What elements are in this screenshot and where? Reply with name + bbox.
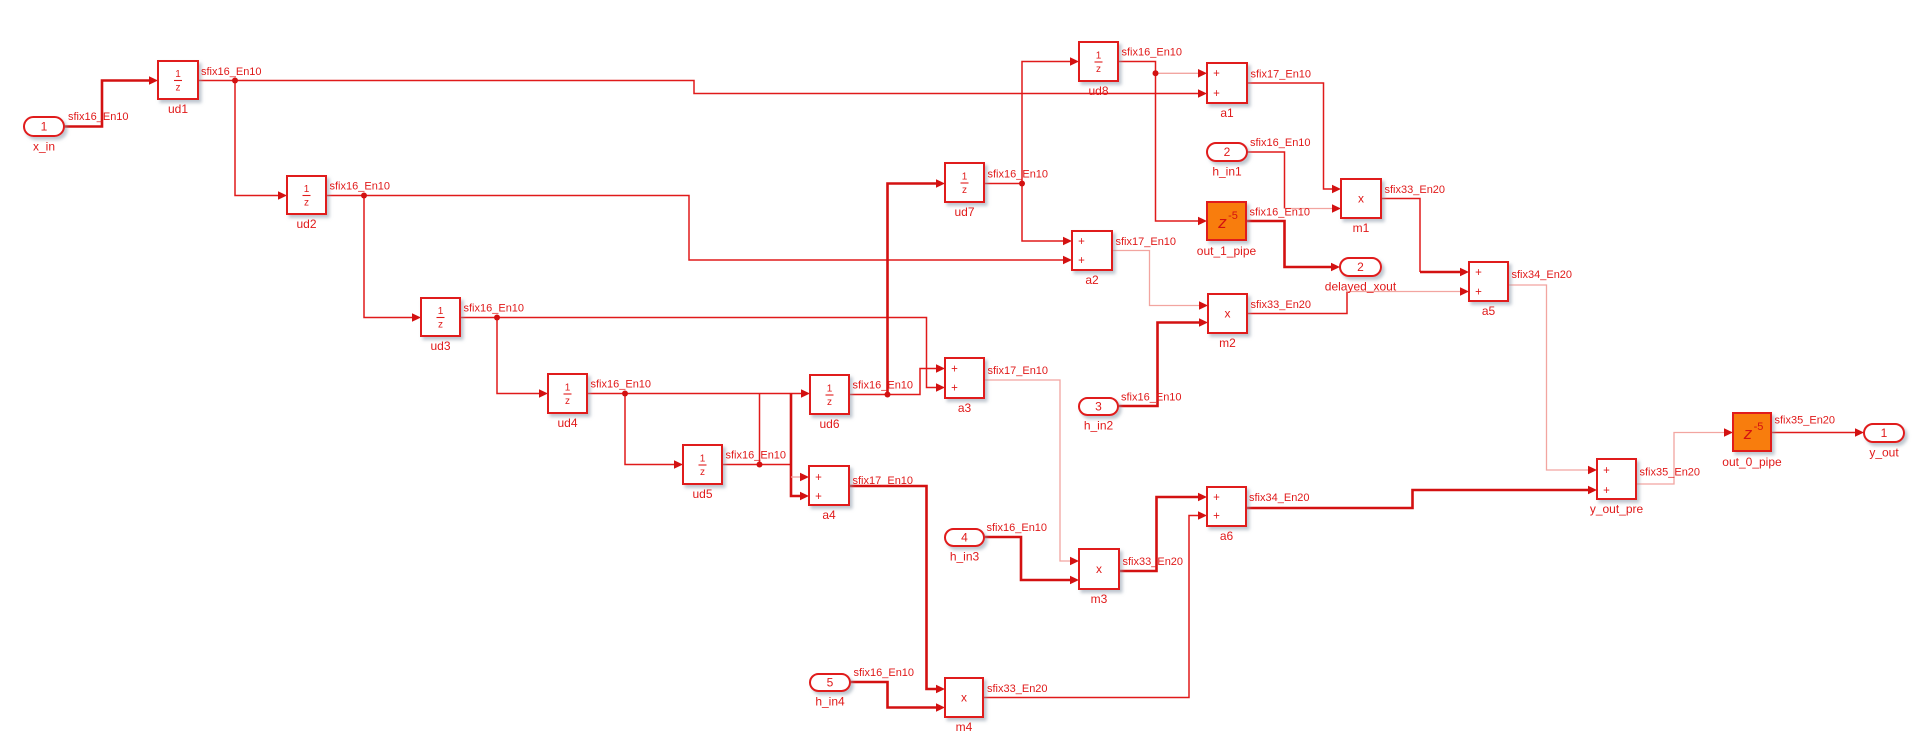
svg-text:sfix16_En10: sfix16_En10	[330, 181, 391, 193]
unit delay ud6	[810, 375, 849, 431]
unit delay ud7	[945, 163, 984, 219]
multiplier m1	[1341, 179, 1381, 235]
svg-text:+: +	[1475, 267, 1482, 279]
svg-text:x: x	[961, 691, 967, 705]
svg-text:sfix17_En10: sfix17_En10	[1116, 236, 1177, 248]
wire ud7 junction to ud8	[1022, 57, 1079, 183]
wire m1 to a5 in1	[1420, 268, 1469, 277]
wire junction	[1019, 181, 1025, 187]
svg-text:+: +	[1213, 68, 1220, 80]
adder a1	[1207, 63, 1247, 120]
svg-text:+: +	[1603, 485, 1610, 497]
wire ud6 branch to ud7	[888, 179, 946, 394]
svg-text:sfix16_En10: sfix16_En10	[1122, 47, 1183, 59]
svg-text:1: 1	[700, 454, 706, 465]
svg-text:+: +	[1213, 88, 1220, 100]
adder a2	[1072, 231, 1112, 287]
wire a5 to y_out_pre in1	[1508, 285, 1597, 474]
svg-text:+: +	[1475, 287, 1482, 299]
wire y_out_pre to out_0_pipe	[1636, 428, 1733, 484]
svg-text:+: +	[1078, 236, 1085, 248]
svg-text:sfix33_En20: sfix33_En20	[987, 683, 1048, 695]
multiplier m2	[1208, 294, 1247, 350]
svg-text:-5: -5	[1228, 210, 1238, 222]
svg-text:+: +	[815, 472, 822, 484]
svg-text:a2: a2	[1085, 273, 1099, 287]
svg-text:m3: m3	[1091, 592, 1108, 606]
svg-text:ud3: ud3	[430, 339, 450, 353]
wire a2 to m2 in1	[1112, 251, 1208, 310]
wire junction	[494, 315, 500, 321]
input port h_in1	[1207, 143, 1247, 179]
svg-text:z: z	[176, 83, 181, 94]
wire ud4 branch to ud5	[625, 394, 683, 469]
svg-text:5: 5	[827, 676, 834, 690]
svg-text:ud2: ud2	[296, 217, 316, 231]
svg-text:x: x	[1358, 192, 1364, 206]
svg-text:x_in: x_in	[33, 140, 55, 154]
wire m2 to a5 in2	[1347, 287, 1469, 296]
svg-text:ud4: ud4	[557, 416, 577, 430]
svg-text:sfix16_En10: sfix16_En10	[1250, 137, 1311, 149]
svg-text:sfix17_En10: sfix17_En10	[988, 365, 1049, 377]
wire h_in3 to m3 in2	[983, 537, 1079, 584]
svg-text:sfix34_En20: sfix34_En20	[1512, 269, 1573, 281]
wire h_in2 to m2 in2	[1118, 318, 1208, 406]
adder a5	[1469, 262, 1508, 318]
svg-text:+: +	[1603, 465, 1610, 477]
wire m4 to a6 in2	[983, 511, 1207, 697]
svg-text:sfix16_En10: sfix16_En10	[1250, 207, 1311, 219]
svg-text:a4: a4	[822, 508, 836, 522]
wire junction	[1153, 70, 1159, 76]
wire spur to a1 in1	[1156, 69, 1208, 78]
wire out_0_pipe to y_out	[1771, 428, 1864, 437]
wire ud1 to a1 in2	[198, 81, 1207, 98]
wire ud2 to a2 in2	[326, 196, 1072, 265]
input port h_in4	[810, 674, 850, 709]
wire m1 out	[1381, 199, 1420, 273]
svg-text:y_out_pre: y_out_pre	[1590, 502, 1644, 516]
svg-text:z: z	[962, 185, 967, 196]
unit delay ud1	[158, 61, 198, 116]
svg-text:a3: a3	[958, 401, 972, 415]
unit delay ud2	[287, 176, 326, 231]
svg-text:ud6: ud6	[819, 417, 839, 431]
svg-text:z: z	[1743, 424, 1753, 443]
wire a6 to y_out_pre in2	[1245, 486, 1597, 508]
wire ud7 junction to a2 in1	[1022, 184, 1072, 246]
output port delayed_xout	[1325, 258, 1397, 294]
wire junction	[361, 193, 367, 199]
svg-text:+: +	[1213, 492, 1220, 504]
multiplier m3	[1079, 549, 1119, 606]
svg-text:sfix16_En10: sfix16_En10	[1121, 392, 1182, 404]
wire a4 to m4 in1	[849, 486, 945, 693]
adder a3	[945, 358, 984, 415]
svg-text:sfix16_En10: sfix16_En10	[853, 380, 914, 392]
svg-text:+: +	[951, 383, 958, 395]
svg-text:1: 1	[1881, 426, 1888, 440]
wire ud4 to ud6	[587, 389, 810, 398]
svg-text:sfix33_En20: sfix33_En20	[1251, 299, 1312, 311]
unit delay ud8	[1079, 42, 1118, 98]
svg-text:sfix16_En10: sfix16_En10	[201, 66, 262, 78]
wire ud1 branch to ud2	[235, 81, 287, 200]
wire ud2 branch to ud3	[364, 196, 421, 322]
svg-text:h_in3: h_in3	[950, 550, 980, 564]
svg-text:a5: a5	[1482, 304, 1496, 318]
svg-text:1: 1	[827, 384, 833, 395]
unit delay ud4	[548, 374, 587, 430]
wire h_in4 to m4 in2	[850, 682, 945, 712]
svg-text:sfix35_En20: sfix35_En20	[1775, 415, 1836, 427]
wire out_1_pipe to delayed_xout	[1246, 221, 1340, 271]
svg-text:y_out: y_out	[1869, 446, 1899, 460]
svg-text:h_in1: h_in1	[1212, 165, 1242, 179]
svg-text:x: x	[1225, 307, 1231, 321]
wire h_in1 to m1 in2	[1285, 204, 1342, 213]
svg-text:1: 1	[438, 306, 444, 317]
wire junction	[885, 392, 891, 398]
wire a3 to m3 in1	[984, 380, 1079, 565]
svg-text:sfix33_En20: sfix33_En20	[1385, 184, 1446, 196]
svg-text:1: 1	[565, 383, 571, 394]
svg-text:+: +	[815, 491, 822, 503]
svg-text:+: +	[1078, 255, 1085, 267]
svg-text:sfix16_En10: sfix16_En10	[68, 111, 129, 123]
wire m3 to a6 in1	[1119, 493, 1207, 571]
svg-text:a6: a6	[1220, 529, 1234, 543]
svg-text:2: 2	[1224, 145, 1231, 159]
input port h_in3	[945, 529, 984, 564]
svg-text:z: z	[565, 396, 570, 407]
svg-text:sfix35_En20: sfix35_En20	[1640, 467, 1701, 479]
svg-text:z: z	[438, 320, 443, 331]
svg-text:delayed_xout: delayed_xout	[1325, 280, 1397, 294]
wire a1 to m1 in1	[1247, 83, 1341, 193]
wire spur to a4 in1	[791, 473, 809, 482]
svg-text:1: 1	[175, 69, 181, 80]
pipeline delay out_0_pipe	[1722, 413, 1782, 469]
multiplier m4	[945, 678, 983, 734]
svg-text:sfix16_En10: sfix16_En10	[726, 450, 787, 462]
svg-text:sfix17_En10: sfix17_En10	[1251, 69, 1312, 81]
svg-text:m2: m2	[1219, 336, 1236, 350]
svg-text:z: z	[1096, 64, 1101, 75]
svg-text:out_1_pipe: out_1_pipe	[1197, 244, 1257, 258]
wire ud6 to a3 in1	[849, 364, 945, 394]
svg-text:sfix33_En20: sfix33_En20	[1123, 556, 1184, 568]
svg-text:sfix34_En20: sfix34_En20	[1249, 492, 1310, 504]
svg-text:3: 3	[1095, 400, 1102, 414]
svg-text:z: z	[827, 397, 832, 408]
svg-text:z: z	[1217, 213, 1227, 232]
unit delay ud3	[421, 298, 460, 353]
svg-text:sfix16_En10: sfix16_En10	[591, 379, 652, 391]
wire ud5 branch up	[759, 394, 761, 465]
input port h_in2	[1079, 398, 1118, 433]
svg-text:sfix17_En10: sfix17_En10	[853, 475, 914, 487]
wire junction	[232, 78, 238, 84]
svg-text:sfix16_En10: sfix16_En10	[464, 303, 525, 315]
input port x_in	[24, 117, 64, 154]
wire ud5 out	[722, 464, 791, 466]
pipeline delay out_1_pipe	[1197, 202, 1257, 258]
svg-text:ud8: ud8	[1088, 84, 1108, 98]
svg-text:z: z	[700, 467, 705, 478]
wire ud7 out	[984, 183, 1022, 185]
wire ud3 branch to ud4	[497, 318, 548, 398]
svg-text:-5: -5	[1754, 421, 1764, 433]
svg-text:1: 1	[41, 120, 48, 134]
svg-text:1: 1	[1096, 51, 1102, 62]
wire junction	[622, 391, 628, 397]
wire x_in to ud1	[64, 76, 158, 126]
wire ud8 to out_1_pipe	[1118, 62, 1207, 226]
svg-text:+: +	[951, 364, 958, 376]
svg-text:1: 1	[962, 172, 968, 183]
wire h_in1 out	[1247, 152, 1285, 209]
svg-text:sfix16_En10: sfix16_En10	[988, 169, 1049, 181]
svg-text:a1: a1	[1220, 106, 1234, 120]
svg-text:h_in4: h_in4	[815, 695, 845, 709]
svg-text:+: +	[1213, 511, 1220, 523]
svg-text:sfix16_En10: sfix16_En10	[854, 667, 915, 679]
svg-text:m1: m1	[1353, 221, 1370, 235]
adder a6	[1207, 487, 1246, 543]
svg-text:z: z	[304, 198, 309, 209]
svg-text:out_0_pipe: out_0_pipe	[1722, 455, 1782, 469]
output port y_out	[1864, 424, 1904, 460]
adder a4	[809, 466, 849, 522]
adder y_out_pre	[1590, 459, 1644, 516]
svg-text:x: x	[1096, 562, 1102, 576]
svg-text:1: 1	[304, 184, 310, 195]
wire junction	[757, 462, 763, 468]
svg-text:4: 4	[961, 531, 968, 545]
wire ud3 to a3 in2	[460, 318, 945, 392]
svg-text:h_in2: h_in2	[1084, 419, 1114, 433]
svg-text:m4: m4	[956, 720, 973, 734]
unit delay ud5	[683, 445, 722, 501]
svg-text:ud7: ud7	[954, 205, 974, 219]
wire m2 out	[1247, 292, 1347, 314]
svg-text:sfix16_En10: sfix16_En10	[987, 522, 1048, 534]
svg-text:2: 2	[1357, 260, 1364, 274]
wire down to a4 in2	[791, 394, 809, 501]
svg-text:ud1: ud1	[168, 102, 188, 116]
svg-text:ud5: ud5	[692, 487, 712, 501]
